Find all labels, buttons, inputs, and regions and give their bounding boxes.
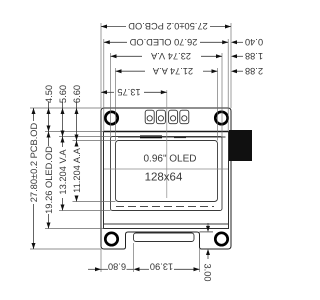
- mounting hole bottom-right: [215, 233, 227, 245]
- aa bottom ext left: [73, 201, 116, 203]
- horizontal centerline: [104, 168, 228, 170]
- svg-text:2.88: 2.88: [245, 66, 263, 76]
- oled glass outline: [104, 132, 229, 229]
- pin pad 4: [180, 110, 189, 124]
- svg-text:26.70 OLED.OD: 26.70 OLED.OD: [129, 37, 197, 47]
- svg-text:1.88: 1.88: [245, 51, 263, 61]
- pcb right ext up: [230, 23, 232, 108]
- svg-text:3.00: 3.00: [203, 263, 213, 281]
- aa left ext up: [115, 68, 117, 141]
- svg-text:128x64: 128x64: [145, 172, 183, 184]
- bottom connector: [134, 233, 195, 242]
- glass seal line: [104, 223, 229, 225]
- rail thick segment 2: [174, 136, 186, 138]
- pin pad 2: [156, 110, 165, 124]
- svg-text:13.90: 13.90: [150, 261, 173, 271]
- notch right ext down: [199, 249, 201, 272]
- svg-text:0.96" OLED: 0.96" OLED: [143, 153, 196, 164]
- notch top edge extension: [200, 231, 214, 233]
- svg-text:6.60: 6.60: [72, 85, 82, 103]
- pcb left ext down: [100, 249, 102, 272]
- glass right ext up: [227, 39, 229, 132]
- mounting hole bottom-left: [105, 233, 117, 245]
- va bottom ext left: [59, 210, 111, 212]
- svg-text:27.80±0.2 PCB.OD: 27.80±0.2 PCB.OD: [29, 122, 39, 202]
- svg-text:5.60: 5.60: [58, 85, 68, 103]
- svg-text:27.50±0.2 PCB.OD: 27.50±0.2 PCB.OD: [128, 21, 208, 31]
- pcb top ext left: [30, 107, 101, 109]
- svg-text:13.204 V.A: 13.204 V.A: [58, 149, 68, 195]
- mounting hole top-left: [105, 112, 117, 124]
- mounting hole top-right: [215, 112, 227, 124]
- active area A.A rect: [116, 141, 218, 202]
- dashed line inside glass: [116, 206, 214, 208]
- svg-text:23.74 V.A: 23.74 V.A: [150, 51, 191, 61]
- pcb bottom ext left: [30, 248, 101, 250]
- viewing area V.A rect: [111, 137, 223, 211]
- rail line under glass top: [118, 136, 226, 138]
- svg-text:6.80: 6.80: [108, 261, 126, 271]
- svg-text:4.50: 4.50: [44, 85, 54, 103]
- svg-text:13.75: 13.75: [117, 87, 140, 97]
- rail thick segment 1: [140, 135, 162, 138]
- svg-text:11.204 A.A: 11.204 A.A: [72, 147, 82, 193]
- glass bottom ext left: [45, 228, 104, 230]
- svg-text:19.26 OLED.OD: 19.26 OLED.OD: [44, 146, 54, 214]
- pcb outline with bottom notch: [101, 108, 231, 249]
- va right ext up: [221, 53, 223, 137]
- glass top edge emphasis: [104, 131, 229, 133]
- pin pad 3: [169, 110, 178, 124]
- connector left ext down: [133, 243, 135, 272]
- va top ext left: [59, 136, 111, 138]
- glass top ext left: [45, 131, 104, 133]
- aa right ext up: [217, 68, 219, 141]
- flex connector black square: [229, 130, 252, 161]
- pin pad 1: [145, 110, 154, 124]
- svg-text:0.40: 0.40: [245, 37, 263, 47]
- aa top ext left: [73, 140, 116, 142]
- va left ext up: [110, 53, 112, 137]
- pcb left ext up: [100, 23, 102, 108]
- svg-text:21.74 A.A: 21.74 A.A: [152, 66, 193, 76]
- vertical centerline: [166, 90, 168, 198]
- glass left ext up: [103, 39, 105, 132]
